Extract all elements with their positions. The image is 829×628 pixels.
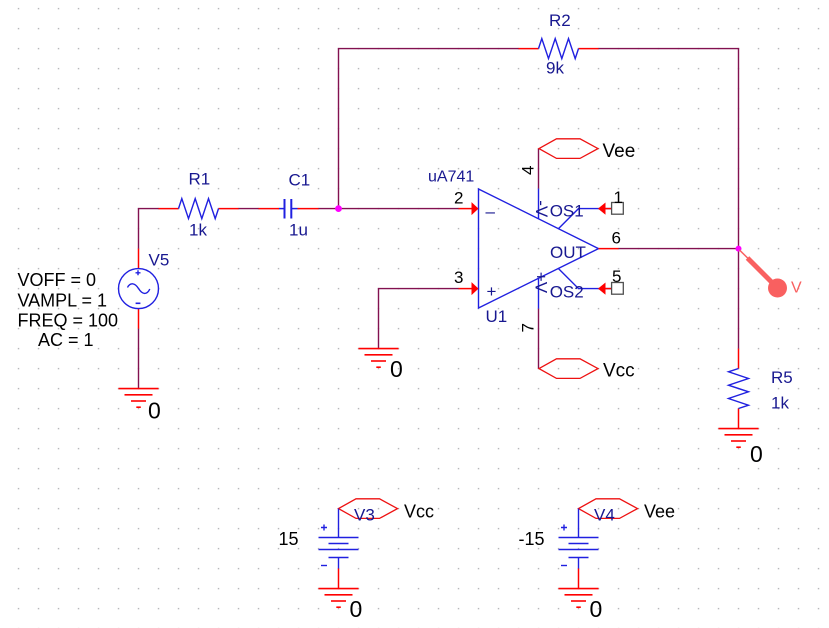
svg-text:0: 0 bbox=[390, 356, 403, 382]
svg-text:-15: -15 bbox=[519, 529, 545, 549]
ground (V5) bbox=[119, 389, 161, 424]
voltage probe V bbox=[740, 250, 803, 298]
svg-text:0: 0 bbox=[590, 596, 603, 622]
svg-text:uA741: uA741 bbox=[428, 169, 474, 186]
svg-text:C1: C1 bbox=[289, 171, 311, 190]
svg-text:+V: +V bbox=[531, 272, 550, 294]
op-amp U1 bbox=[428, 169, 599, 327]
node output junction bbox=[736, 246, 742, 252]
pin 3 bbox=[454, 268, 479, 295]
svg-text:–: – bbox=[486, 202, 496, 221]
svg-text:3: 3 bbox=[454, 268, 463, 287]
source V4 bbox=[519, 499, 676, 589]
svg-text:Vee: Vee bbox=[603, 141, 636, 162]
wire feedback left vertical and R2 top bbox=[339, 49, 519, 209]
svg-text:0: 0 bbox=[148, 398, 161, 424]
svg-text:V4: V4 bbox=[594, 506, 615, 525]
svg-text:OUT: OUT bbox=[550, 243, 586, 262]
svg-text:R2: R2 bbox=[549, 11, 571, 30]
svg-text:U1: U1 bbox=[486, 307, 508, 326]
svg-text:Vcc: Vcc bbox=[603, 361, 635, 382]
pin 7 bbox=[519, 272, 551, 333]
svg-text:4: 4 bbox=[519, 166, 538, 175]
svg-text:VOFF = 0: VOFF = 0 bbox=[18, 270, 97, 290]
svg-text:9k: 9k bbox=[546, 59, 564, 78]
svg-text:2: 2 bbox=[454, 189, 463, 208]
svg-text:5: 5 bbox=[612, 267, 621, 286]
svg-text:OS2: OS2 bbox=[550, 283, 584, 302]
power symbol Vcc (bottom) bbox=[539, 359, 635, 382]
pin 5 OS2 bbox=[550, 267, 624, 302]
svg-text:7: 7 bbox=[519, 323, 538, 332]
wire pin 3 to ground bbox=[379, 289, 459, 349]
pin 1 OS1 bbox=[550, 188, 624, 229]
wire R1 to C1 bbox=[239, 208, 259, 210]
svg-text:Vee: Vee bbox=[644, 502, 675, 522]
capacitor C1 bbox=[259, 171, 319, 240]
svg-text:R5: R5 bbox=[771, 368, 793, 387]
svg-text:0: 0 bbox=[350, 596, 363, 622]
pin 6 output bbox=[599, 229, 621, 249]
wire C1 to node bbox=[319, 208, 339, 210]
node input junction bbox=[335, 205, 342, 212]
svg-text:V3: V3 bbox=[354, 506, 375, 525]
svg-text:Vcc: Vcc bbox=[404, 502, 434, 522]
svg-text:1k: 1k bbox=[771, 394, 789, 413]
wire V5 bottom to ground bbox=[138, 329, 140, 389]
svg-text:-V: -V bbox=[532, 200, 551, 218]
wire output bbox=[619, 248, 739, 250]
ground (pin 3) bbox=[359, 349, 403, 382]
power symbol Vee (top) bbox=[539, 139, 635, 162]
source V3 bbox=[279, 499, 435, 589]
svg-text:VAMPL = 1: VAMPL = 1 bbox=[18, 291, 108, 311]
svg-text:OS1: OS1 bbox=[550, 202, 584, 221]
wire output junction to R5 bbox=[738, 249, 740, 349]
ground (V3) bbox=[319, 589, 363, 622]
svg-text:0: 0 bbox=[750, 441, 763, 467]
svg-text:R1: R1 bbox=[189, 170, 211, 189]
ground (V4) bbox=[559, 589, 603, 622]
svg-text:AC = 1: AC = 1 bbox=[38, 330, 94, 350]
resistor R2 bbox=[519, 11, 599, 78]
svg-text:1: 1 bbox=[614, 188, 623, 207]
wire Vee to pin 4 bbox=[538, 149, 540, 189]
svg-text:V: V bbox=[791, 280, 802, 297]
svg-text:6: 6 bbox=[612, 229, 621, 248]
svg-text:FREQ = 100: FREQ = 100 bbox=[18, 311, 119, 331]
resistor R5 bbox=[729, 349, 793, 429]
ground (R5) bbox=[719, 429, 763, 467]
wire pin 7 to Vcc bbox=[538, 309, 540, 369]
pin 4 bbox=[519, 166, 552, 219]
resistor R1 bbox=[159, 170, 239, 240]
pin 2 bbox=[454, 189, 479, 216]
source V5 bbox=[119, 249, 170, 329]
svg-text:1u: 1u bbox=[289, 221, 308, 240]
svg-text:15: 15 bbox=[279, 529, 299, 549]
V5 parameters bbox=[18, 270, 119, 350]
svg-text:V5: V5 bbox=[149, 251, 170, 270]
wire V5 to R1 bbox=[139, 209, 159, 249]
wire node to pin 2 bbox=[339, 208, 459, 210]
svg-text:+: + bbox=[487, 282, 497, 301]
wire R2 right to output junction bbox=[599, 49, 739, 249]
svg-text:1k: 1k bbox=[189, 221, 207, 240]
